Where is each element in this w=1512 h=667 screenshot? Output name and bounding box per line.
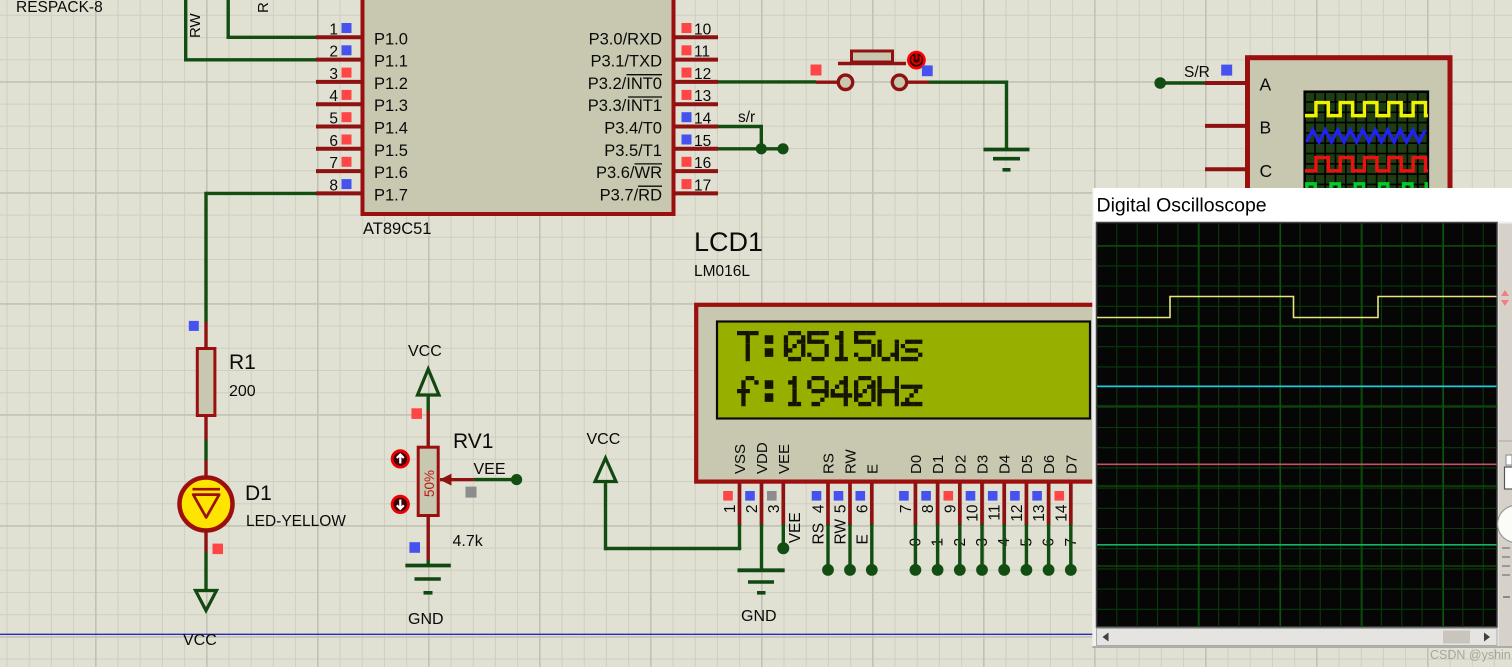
pin 5 indicator square xyxy=(342,112,352,122)
pin 3 stub xyxy=(316,80,363,84)
wire LCD pin 13 with end dot xyxy=(1047,524,1050,565)
svg-text:E: E xyxy=(864,464,881,474)
svg-text:RESPACK-8: RESPACK-8 xyxy=(16,0,103,16)
microcontroller U1 AT89C51 body xyxy=(363,0,674,214)
svg-text:10: 10 xyxy=(965,504,982,522)
oscilloscope screen xyxy=(1097,223,1498,628)
pin 17 indicator square xyxy=(682,179,692,189)
oscilloscope right control strip xyxy=(1499,224,1512,648)
wire RW net vertical xyxy=(184,0,187,60)
wire R1 to D1 xyxy=(204,440,207,460)
svg-text:1: 1 xyxy=(722,505,739,514)
R1 top terminal xyxy=(204,322,207,349)
pin 15 stub xyxy=(675,147,719,151)
svg-text:13: 13 xyxy=(1031,505,1048,522)
svg-text:P1.4: P1.4 xyxy=(374,120,408,138)
wire LCD pin 8 with end dot xyxy=(936,524,939,565)
LCD text line 1 T:0515us xyxy=(737,331,922,361)
ground symbol under LCD xyxy=(738,568,785,572)
svg-text:2: 2 xyxy=(744,505,761,514)
svg-text:P3.4/T0: P3.4/T0 xyxy=(604,120,662,138)
svg-text:P3.0/RXD: P3.0/RXD xyxy=(589,30,662,48)
blue indicator square at RV1 bottom xyxy=(409,542,420,553)
LCD LM016L body xyxy=(696,305,1118,482)
svg-text:P1.7: P1.7 xyxy=(374,186,408,204)
graph mini screen xyxy=(1305,92,1428,197)
junction square red xyxy=(213,544,224,555)
graph trace D green square wave (clipped) xyxy=(1307,184,1428,196)
svg-text:13: 13 xyxy=(694,88,711,105)
graph trace A yellow square wave xyxy=(1305,103,1428,116)
push button actuator bar xyxy=(838,62,906,66)
svg-text:P1.1: P1.1 xyxy=(374,53,408,71)
svg-text:9: 9 xyxy=(942,505,959,514)
wire LCD pin3 VEE stub with dot xyxy=(782,524,785,544)
svg-text:VCC: VCC xyxy=(183,632,217,649)
svg-text:S/R: S/R xyxy=(1184,64,1210,81)
wire LCD pin 14 with end dot xyxy=(1069,524,1072,565)
LCD text line 2 f:1940Hz xyxy=(737,376,922,406)
svg-text:AT89C51: AT89C51 xyxy=(363,220,431,238)
pin 7 stub xyxy=(316,169,363,173)
svg-text:D1: D1 xyxy=(930,455,947,474)
svg-text:E: E xyxy=(854,534,871,544)
pin 11 indicator square xyxy=(682,45,692,55)
sheet border line xyxy=(0,633,1512,635)
wire button to ground xyxy=(929,80,1007,83)
svg-text:P1.2: P1.2 xyxy=(374,75,408,93)
push button right contact xyxy=(892,75,906,89)
svg-text:5: 5 xyxy=(833,505,850,514)
svg-text:2: 2 xyxy=(329,44,338,61)
D1 diode symbol xyxy=(193,489,221,517)
pin 13 stub xyxy=(675,102,719,106)
RV1 top terminal xyxy=(427,411,430,448)
pin 6 stub xyxy=(316,147,363,151)
svg-text:VEE: VEE xyxy=(474,461,506,478)
svg-text:VCC: VCC xyxy=(587,431,621,448)
D1 top terminal xyxy=(204,460,207,478)
wire pin14 s/r xyxy=(718,125,761,128)
svg-text:VDD: VDD xyxy=(754,442,771,474)
oscilloscope channel B cyan trace xyxy=(1097,385,1497,387)
junction dot s/r xyxy=(756,143,767,154)
svg-text:4: 4 xyxy=(329,88,338,105)
power arrow down (VCC net) xyxy=(196,591,217,611)
svg-text:8: 8 xyxy=(920,505,937,514)
pin 8 stub xyxy=(316,191,363,195)
svg-text:RS: RS xyxy=(811,523,828,545)
svg-text:GND: GND xyxy=(408,611,444,628)
wire end dot S/R xyxy=(1154,77,1166,89)
svg-text:RS: RS xyxy=(821,453,838,474)
junction square blue xyxy=(189,321,199,331)
svg-text:5: 5 xyxy=(329,111,338,128)
red indicator square at RV1 top xyxy=(411,408,422,419)
power arrow up VCC (RV1) xyxy=(418,369,440,395)
wire S/R to graph input A xyxy=(1160,81,1205,84)
pin 6 indicator square xyxy=(342,135,352,145)
pin 7 indicator square xyxy=(342,157,352,167)
D1 bottom terminal xyxy=(204,530,207,552)
wire LCD pin 4 with end dot xyxy=(826,524,829,565)
svg-text:RW: RW xyxy=(833,519,850,545)
pin 14 stub xyxy=(675,125,719,129)
svg-text:17: 17 xyxy=(694,177,711,194)
svg-text:P1.5: P1.5 xyxy=(374,142,408,160)
svg-text:12: 12 xyxy=(694,66,711,83)
svg-text:12: 12 xyxy=(1009,505,1026,522)
svg-text:P1.0: P1.0 xyxy=(374,30,408,48)
pin 1 stub xyxy=(316,35,363,39)
wire LCD pin 10 with end dot xyxy=(980,524,983,565)
pin 14 indicator square xyxy=(682,112,692,122)
graph component body xyxy=(1248,58,1451,198)
svg-text:VEE: VEE xyxy=(787,512,804,543)
LCD screen xyxy=(717,322,1090,419)
svg-text:14: 14 xyxy=(1053,504,1070,522)
svg-text:Digital Oscilloscope: Digital Oscilloscope xyxy=(1097,195,1267,217)
pin 4 indicator square xyxy=(342,90,352,100)
svg-text:1: 1 xyxy=(329,21,338,38)
svg-text:RW: RW xyxy=(843,448,860,474)
LED D1 body xyxy=(180,478,233,531)
svg-text:200: 200 xyxy=(229,383,256,400)
junction square red at button xyxy=(811,65,822,76)
wire LCD pin1 VSS to VCC rail xyxy=(738,524,741,549)
button left terminal wire xyxy=(816,80,839,83)
pin 16 indicator square xyxy=(682,157,692,167)
pin 8 indicator square xyxy=(342,179,352,189)
oscilloscope channel A yellow trace xyxy=(1097,297,1497,318)
svg-text:B: B xyxy=(1260,118,1272,138)
pin 12 stub xyxy=(675,80,719,84)
pin 11 stub xyxy=(675,58,719,62)
pin 4 stub xyxy=(316,102,363,106)
graph pin B stub xyxy=(1205,124,1248,128)
svg-text:P3.6/WR: P3.6/WR xyxy=(596,164,662,182)
wire from pin 8 to R1 xyxy=(206,192,316,195)
svg-text:50%: 50% xyxy=(422,470,437,497)
pin 15 indicator square xyxy=(682,135,692,145)
pin 10 stub xyxy=(675,35,719,39)
svg-text:D4: D4 xyxy=(997,455,1014,474)
svg-text:11: 11 xyxy=(694,44,710,61)
wire LCD pin 11 with end dot xyxy=(1003,524,1006,565)
oscilloscope window title bar xyxy=(1094,189,1512,222)
wire D1 to VCC arrow xyxy=(204,552,207,591)
oscilloscope channel D green trace xyxy=(1097,544,1497,546)
svg-text:LM016L: LM016L xyxy=(694,263,750,280)
wire pin12 to button xyxy=(718,80,816,83)
svg-text:D3: D3 xyxy=(975,455,992,474)
svg-text:P3.5/T1: P3.5/T1 xyxy=(604,142,662,160)
svg-text:11: 11 xyxy=(987,505,1004,521)
svg-text:P3.2/INT0: P3.2/INT0 xyxy=(588,75,662,93)
pin 3 indicator square xyxy=(342,68,352,78)
graph trace B blue triangle wave xyxy=(1307,130,1426,142)
wire LCD pin 5 with end dot xyxy=(848,524,851,565)
svg-text:RW: RW xyxy=(187,12,204,38)
svg-text:4.7k: 4.7k xyxy=(453,533,484,550)
svg-text:7: 7 xyxy=(329,155,338,172)
resistor R1 body xyxy=(197,349,215,416)
wire pin15 s/r xyxy=(718,147,783,150)
gray indicator square at RV1 wiper xyxy=(466,487,477,498)
svg-text:D7: D7 xyxy=(1063,455,1080,474)
oscilloscope window bottom edge xyxy=(1092,646,1512,648)
RV1 decrement button (down arrow) xyxy=(392,496,408,512)
svg-text:7: 7 xyxy=(898,505,915,514)
wire LCD pin 12 with end dot xyxy=(1025,524,1028,565)
oscilloscope bottom scrollbar xyxy=(1097,629,1498,646)
svg-text:D2: D2 xyxy=(952,455,969,474)
svg-text:R: R xyxy=(255,2,272,13)
pin 17 stub xyxy=(675,191,719,195)
svg-text:RV1: RV1 xyxy=(453,430,493,453)
svg-text:P3.3/INT1: P3.3/INT1 xyxy=(588,97,662,115)
svg-text:C: C xyxy=(1260,161,1273,181)
pin 2 stub xyxy=(316,58,363,62)
pin 1 indicator square xyxy=(342,23,352,33)
pin 12 indicator square xyxy=(682,68,692,78)
ground symbol at RV1 xyxy=(405,564,450,568)
svg-text:P3.1/TXD: P3.1/TXD xyxy=(590,53,662,71)
blue indicator square at button xyxy=(922,65,933,76)
wire RS net vertical xyxy=(226,0,229,37)
svg-text:A: A xyxy=(1260,75,1272,95)
svg-text:D5: D5 xyxy=(1019,455,1036,474)
ground symbol at button xyxy=(984,148,1030,152)
svg-text:LCD1: LCD1 xyxy=(694,227,763,257)
push button cap xyxy=(852,51,893,62)
svg-text:LED-YELLOW: LED-YELLOW xyxy=(246,513,346,530)
svg-text:6: 6 xyxy=(329,133,338,150)
svg-text:VCC: VCC xyxy=(408,343,442,360)
blue indicator square S/R xyxy=(1221,65,1232,76)
graph trace C red square wave xyxy=(1305,158,1428,171)
svg-text:D6: D6 xyxy=(1041,455,1058,474)
pin 10 indicator square xyxy=(682,23,692,33)
push button left contact xyxy=(838,75,852,89)
svg-text:GND: GND xyxy=(741,608,777,625)
pin 16 stub xyxy=(675,169,719,173)
oscilloscope channel C pink trace xyxy=(1097,463,1497,465)
pin 13 indicator square xyxy=(682,90,692,100)
wire LCD pin 7 with end dot xyxy=(914,524,917,565)
wire end dot s/r xyxy=(777,143,788,154)
svg-text:4: 4 xyxy=(811,504,828,513)
svg-text:D1: D1 xyxy=(245,482,272,505)
RV1 bottom terminal xyxy=(427,516,430,561)
wire LCD pin2 VDD to ground xyxy=(760,524,763,569)
svg-text:VSS: VSS xyxy=(732,444,749,474)
svg-text:8: 8 xyxy=(329,177,338,194)
RV1 increment button (up arrow) xyxy=(392,451,408,467)
potentiometer RV1 body xyxy=(418,447,438,515)
wire LCD pin 9 with end dot xyxy=(958,524,961,565)
svg-text:6: 6 xyxy=(854,505,871,514)
pin 2 indicator square xyxy=(342,45,352,55)
svg-text:P1.3: P1.3 xyxy=(374,97,408,115)
graph pin A stub xyxy=(1205,81,1248,85)
button interactive indicator (red circle with arrows) xyxy=(908,52,924,68)
svg-text:P1.6: P1.6 xyxy=(374,164,408,182)
RV1 wiper wire with arrow xyxy=(440,478,474,481)
graph pin C stub xyxy=(1205,167,1248,171)
svg-text:16: 16 xyxy=(694,155,711,172)
svg-text:14: 14 xyxy=(694,111,712,128)
svg-text:R1: R1 xyxy=(229,351,256,374)
oscilloscope window frame xyxy=(1092,188,1512,648)
svg-text:s/r: s/r xyxy=(738,109,755,126)
wire end dot VEE xyxy=(511,474,522,485)
pin 5 stub xyxy=(316,125,363,129)
svg-text:3: 3 xyxy=(329,66,338,83)
svg-text:10: 10 xyxy=(694,21,712,38)
svg-text:P3.7/RD: P3.7/RD xyxy=(600,186,662,204)
svg-text:VEE: VEE xyxy=(776,444,793,474)
R1 bottom terminal xyxy=(204,416,207,441)
svg-text:D0: D0 xyxy=(908,455,925,474)
wire LCD pin 6 with end dot xyxy=(870,524,873,565)
button right terminal wire xyxy=(907,80,929,83)
svg-text:15: 15 xyxy=(694,133,711,150)
svg-text:CSDN @yshin: CSDN @yshin xyxy=(1430,648,1511,662)
svg-text:3: 3 xyxy=(766,505,783,514)
